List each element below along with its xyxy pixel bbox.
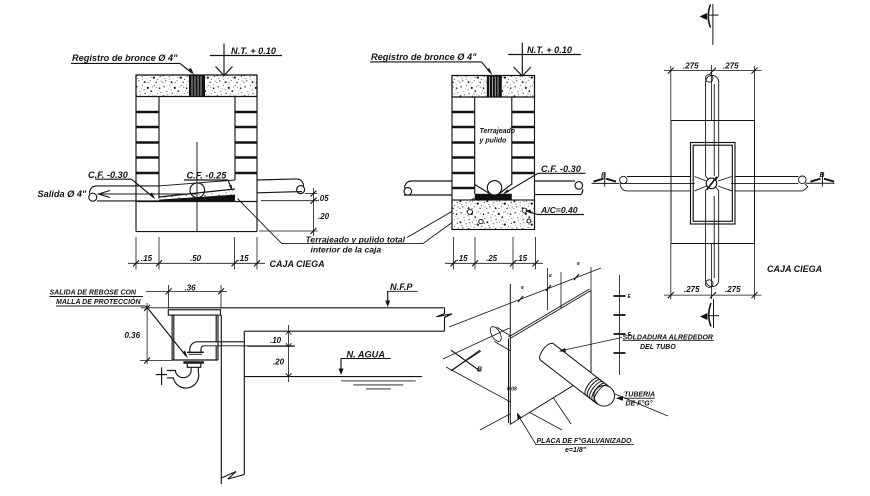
svg-text:e=1/8": e=1/8"	[565, 447, 587, 454]
svg-text:0.08: 0.08	[507, 387, 517, 393]
svg-text:N.T. + 0.10: N.T. + 0.10	[231, 46, 277, 56]
svg-text:.25: .25	[486, 254, 498, 263]
svg-text:Registro de bronce Ø 4": Registro de bronce Ø 4"	[72, 53, 178, 63]
svg-text:.275: .275	[725, 285, 741, 294]
svg-text:B: B	[477, 367, 482, 374]
svg-text:.20: .20	[318, 212, 330, 221]
svg-text:Salida Ø 4": Salida Ø 4"	[38, 189, 87, 199]
svg-text:.15: .15	[238, 254, 250, 263]
svg-text:.05: .05	[318, 194, 330, 203]
svg-text:SOLDADURA ALREDEDOR: SOLDADURA ALREDEDOR	[623, 335, 713, 342]
svg-text:e: e	[549, 273, 552, 279]
svg-text:Registro de bronce Ø 4": Registro de bronce Ø 4"	[371, 52, 477, 62]
svg-text:DEL TUBO: DEL TUBO	[640, 344, 676, 351]
svg-text:e: e	[521, 285, 524, 291]
svg-text:.15: .15	[457, 254, 469, 263]
svg-text:A/C=0.40: A/C=0.40	[540, 205, 578, 215]
svg-text:0.36: 0.36	[125, 331, 141, 340]
svg-text:C.F. -0.30: C.F. -0.30	[88, 170, 129, 180]
svg-text:.275: .275	[683, 62, 699, 71]
svg-text:interior de la caja: interior de la caja	[311, 244, 382, 254]
svg-text:DE F°G°: DE F°G°	[626, 400, 653, 408]
svg-text:C.F. -0.25: C.F. -0.25	[187, 171, 228, 181]
svg-text:B: B	[601, 173, 606, 180]
svg-text:e: e	[577, 261, 580, 267]
svg-text:N.F.P: N.F.P	[390, 282, 413, 292]
svg-text:.15: .15	[516, 254, 528, 263]
svg-text:PLACA DE F°GALVANIZADO: PLACA DE F°GALVANIZADO	[537, 437, 633, 445]
svg-text:y pulido: y pulido	[479, 138, 508, 145]
svg-text:.275: .275	[684, 285, 700, 294]
svg-text:C.F. -0.30: C.F. -0.30	[541, 164, 582, 174]
svg-text:B: B	[820, 172, 825, 179]
svg-text:.50: .50	[190, 254, 202, 263]
svg-text:N. AGUA: N. AGUA	[347, 349, 385, 359]
svg-text:N.T. + 0.10: N.T. + 0.10	[527, 45, 573, 55]
svg-text:Terrajeado: Terrajeado	[480, 128, 516, 135]
svg-text:.15: .15	[141, 254, 153, 263]
svg-text:CAJA CIEGA: CAJA CIEGA	[270, 259, 325, 269]
svg-text:TUBERIA: TUBERIA	[624, 392, 655, 399]
svg-text:Terrajeado y pulido total: Terrajeado y pulido total	[306, 234, 406, 244]
svg-text:MALLA DE PROTECCIÓN: MALLA DE PROTECCIÓN	[56, 297, 141, 306]
svg-text:SALIDA DE REBOSE CON: SALIDA DE REBOSE CON	[50, 290, 137, 297]
svg-text:.36: .36	[185, 283, 197, 292]
svg-text:CAJA CIEGA: CAJA CIEGA	[767, 264, 822, 274]
svg-text:.275: .275	[723, 62, 739, 71]
svg-text:.10: .10	[270, 336, 282, 345]
svg-text:.20: .20	[273, 357, 285, 366]
